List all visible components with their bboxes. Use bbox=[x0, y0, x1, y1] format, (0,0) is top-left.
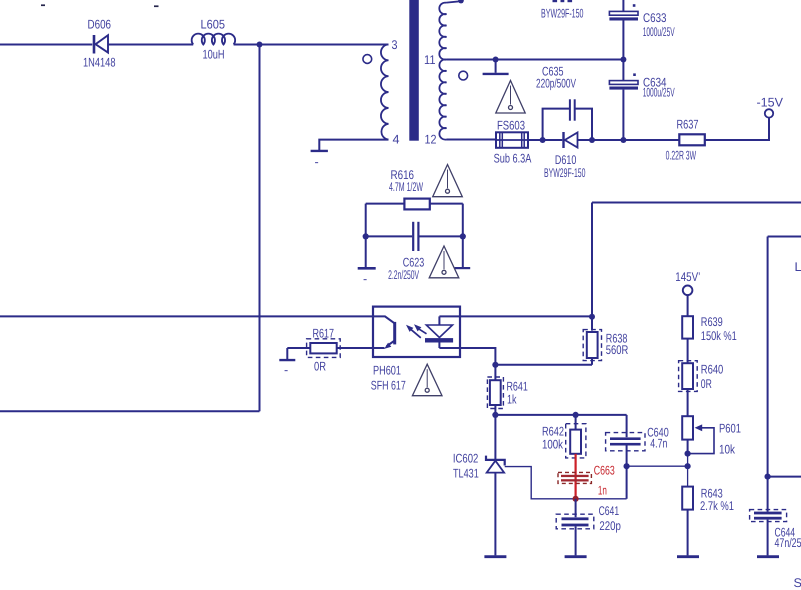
node at tap stub bbox=[493, 57, 499, 63]
resistor R640 dashed box bbox=[679, 361, 698, 392]
ground stub right of C623 bbox=[455, 267, 471, 269]
wire R641 bottom to TL431 bbox=[494, 405, 496, 460]
svg-text:2.7k %1: 2.7k %1 bbox=[700, 499, 734, 513]
wire: bottom return y=411 bbox=[0, 410, 260, 412]
capacitor C640 dashed box bbox=[606, 433, 645, 451]
wire R640 to P601 bbox=[687, 389, 689, 416]
svg-text:R641: R641 bbox=[507, 379, 528, 393]
svg-text:TL431: TL431 bbox=[453, 466, 479, 480]
wire R638 bottom rail to R641 node bbox=[495, 364, 592, 366]
node C634 bottom bbox=[620, 137, 626, 143]
capacitor C644 dashed box bbox=[750, 510, 787, 522]
wire R638 bottom bbox=[591, 358, 593, 365]
resistor R642 bbox=[570, 430, 581, 454]
svg-text:145V’: 145V’ bbox=[675, 270, 700, 284]
warning triangle above C623 bbox=[433, 165, 463, 197]
svg-text:0R: 0R bbox=[314, 359, 326, 373]
label D609 clipped bbox=[553, 0, 558, 2]
capacitor C641 plates bbox=[562, 517, 589, 520]
phase dot primary bbox=[363, 55, 372, 64]
resistor R616 bbox=[404, 199, 429, 210]
svg-text:-15V: -15V bbox=[757, 95, 784, 109]
svg-text:560R: 560R bbox=[606, 343, 629, 357]
ground TL431 bbox=[484, 555, 506, 558]
potentiometer P601 bbox=[682, 416, 693, 439]
node R642 top bbox=[573, 412, 579, 418]
svg-text:1000u/25V: 1000u/25V bbox=[643, 25, 675, 39]
svg-text:BYW29F-150: BYW29F-150 bbox=[544, 166, 586, 180]
node C623 right bbox=[460, 233, 466, 239]
svg-text:-: - bbox=[284, 363, 288, 377]
node fuse/D610/C635 left bbox=[540, 137, 546, 143]
resistor R639 bbox=[682, 316, 693, 338]
svg-text:SFH 617: SFH 617 bbox=[371, 378, 406, 392]
svg-text:P601: P601 bbox=[719, 422, 741, 436]
wire R643 to ground bbox=[687, 510, 689, 556]
resistor R638 bbox=[587, 332, 598, 358]
svg-text:C623: C623 bbox=[403, 255, 425, 269]
svg-text:PH601: PH601 bbox=[373, 363, 401, 377]
wire to transformer pin 3 bbox=[234, 44, 389, 46]
wire: feedback line y=316.5 to optocoupler bbox=[0, 315, 373, 317]
node pin11/C633 junction bbox=[620, 57, 626, 63]
capacitor C663 plates bbox=[561, 475, 589, 477]
capacitor C640 branch bbox=[626, 415, 628, 437]
svg-text:150k %1: 150k %1 bbox=[701, 329, 737, 343]
wire left vertical of R616 loop bbox=[365, 204, 367, 268]
node R641 bottom bbox=[492, 412, 498, 418]
svg-text:D610: D610 bbox=[555, 153, 576, 167]
terminal 145V bbox=[683, 286, 693, 296]
diode D606 bbox=[94, 35, 193, 54]
svg-text:100k: 100k bbox=[542, 438, 564, 452]
svg-text:L: L bbox=[795, 260, 801, 274]
wire R641 node to C640 branch bbox=[495, 414, 626, 416]
wire R642 top bbox=[575, 415, 577, 430]
node D610/C635 right bbox=[589, 137, 595, 143]
svg-text:1000u/25V: 1000u/25V bbox=[643, 85, 675, 99]
wire pin 4 to ground bbox=[319, 140, 388, 150]
resistor R638 dashed box bbox=[583, 330, 601, 361]
resistor R641 dashed box bbox=[487, 377, 503, 409]
svg-text:S: S bbox=[794, 576, 801, 590]
svg-text:IC602: IC602 bbox=[453, 451, 478, 465]
node R641 top bbox=[492, 362, 498, 368]
svg-text:4.7n: 4.7n bbox=[650, 436, 667, 450]
capacitor C663 (red) dashed box bbox=[558, 472, 591, 483]
svg-text:-: - bbox=[363, 272, 367, 286]
capacitor C644 plates bbox=[754, 512, 782, 515]
node C623 left bbox=[363, 233, 369, 239]
wire: 145V box top rail bbox=[592, 202, 801, 204]
resistor R641 bbox=[490, 380, 501, 405]
capacitor C635 parallel branch bbox=[543, 99, 592, 140]
resistor R617 bbox=[310, 343, 336, 353]
wire opto top-right to R638 node bbox=[460, 315, 592, 317]
wire: vertical from rail to R638 bbox=[591, 203, 593, 331]
wire C644 to ground bbox=[767, 520, 769, 556]
wire: C644 vertical bbox=[767, 237, 769, 512]
wire R639 to R640 bbox=[687, 339, 689, 364]
wire P601 to R643 bbox=[687, 440, 689, 454]
svg-text:47n/25: 47n/25 bbox=[775, 536, 801, 550]
resistor R642 dashed box bbox=[566, 424, 586, 458]
wire R617 to opto bbox=[337, 347, 373, 349]
svg-text:4: 4 bbox=[393, 132, 400, 146]
wire C644 node to right edge bbox=[768, 476, 801, 478]
wire: pin 11 rail y=59.5 bbox=[447, 59, 624, 61]
wire ground to R617 bbox=[287, 347, 310, 349]
wire C640 node to divider bbox=[627, 465, 688, 467]
svg-text:10k: 10k bbox=[719, 442, 736, 456]
svg-text:R642: R642 bbox=[542, 424, 564, 438]
node junction at L605 output bbox=[257, 42, 263, 48]
capacitor C633 bbox=[609, 0, 638, 60]
svg-text:C641: C641 bbox=[599, 504, 620, 518]
svg-text:1N4148: 1N4148 bbox=[83, 55, 116, 69]
node C640 bottom bbox=[624, 463, 630, 469]
fuse FS603 bbox=[496, 132, 528, 148]
svg-text:R639: R639 bbox=[701, 315, 723, 329]
ground C644 bbox=[757, 555, 779, 558]
svg-text:C663: C663 bbox=[594, 463, 615, 477]
svg-text:FS603: FS603 bbox=[497, 118, 525, 132]
opto photon arrows bbox=[406, 324, 427, 338]
wire R637 to -15V terminal bbox=[705, 118, 769, 140]
ground for R617 bbox=[286, 348, 288, 359]
diode D610 bbox=[564, 132, 578, 148]
capacitor C641 bbox=[575, 499, 577, 517]
node divider/C640 link bbox=[685, 463, 691, 469]
svg-text:R617: R617 bbox=[313, 327, 335, 341]
capacitor C623 bbox=[366, 222, 463, 251]
wire opto bottom-right to R641 bbox=[460, 348, 495, 380]
svg-text:-: - bbox=[315, 155, 319, 169]
svg-text:D606: D606 bbox=[88, 18, 112, 32]
svg-text:C633: C633 bbox=[643, 11, 667, 25]
inductor L605 bbox=[192, 34, 236, 45]
svg-text:R640: R640 bbox=[701, 362, 724, 376]
svg-text:0.22R 3W: 0.22R 3W bbox=[666, 149, 697, 163]
svg-text:0R: 0R bbox=[701, 377, 712, 391]
wire 145V to R639 bbox=[687, 296, 689, 317]
capacitor C641 dashed box bbox=[556, 514, 594, 529]
optocoupler PH601 box bbox=[373, 307, 460, 357]
red wire R642 to C663 node bbox=[574, 454, 576, 499]
svg-text:R637: R637 bbox=[677, 118, 699, 132]
P601 wiper arrow bbox=[688, 424, 714, 453]
warning triangle near FS603 bbox=[496, 81, 525, 114]
warning triangle below C623 bbox=[429, 246, 459, 278]
resistor R616 loop bbox=[366, 203, 405, 205]
opto LED bbox=[425, 316, 460, 348]
wire fuse to D610 bbox=[528, 139, 562, 141]
node R638 top bbox=[589, 314, 595, 320]
wire right vertical of R616 loop bbox=[462, 204, 464, 268]
opto phototransistor bbox=[373, 316, 395, 349]
svg-text:L605: L605 bbox=[201, 17, 226, 31]
node P601 bottom bbox=[685, 451, 691, 457]
transformer T601 core bbox=[409, 0, 419, 141]
resistor R617 dashed box bbox=[307, 339, 341, 358]
svg-text:Sub 6.3A: Sub 6.3A bbox=[494, 151, 532, 165]
node C644 tap bbox=[765, 474, 771, 480]
svg-text:1n: 1n bbox=[598, 484, 607, 498]
resistor R640 bbox=[682, 363, 693, 389]
svg-text:220p/500V: 220p/500V bbox=[536, 77, 576, 91]
shunt regulator IC602 TL431 bbox=[486, 456, 505, 556]
warning triangle below opto bbox=[412, 364, 442, 396]
svg-text:4.7M 1/2W: 4.7M 1/2W bbox=[389, 180, 423, 194]
wire stub to D609 (cut at top) bbox=[447, 1, 462, 2]
wire: long vertical from junction bbox=[259, 45, 261, 412]
transformer primary winding pins 3-4 bbox=[381, 44, 389, 139]
svg-text:10uH: 10uH bbox=[203, 47, 225, 61]
capacitor C640 plates bbox=[610, 437, 641, 440]
resistor R637 bbox=[679, 134, 705, 145]
wire: pin 12 rail to fuse bbox=[447, 139, 497, 141]
ground C641 bbox=[565, 555, 587, 558]
ground left of C623 bbox=[358, 267, 376, 270]
svg-text:12: 12 bbox=[425, 132, 437, 146]
wire TL431 ref loop bbox=[505, 467, 627, 499]
wire: top-left input net y=44.5 bbox=[0, 44, 92, 46]
svg-text:2.2n/250V: 2.2n/250V bbox=[388, 268, 419, 282]
transformer secondary winding pins 11-12 bbox=[439, 3, 446, 140]
svg-text:1k: 1k bbox=[507, 393, 517, 407]
wire: C644 branch top rail bbox=[768, 236, 801, 238]
svg-text:220p: 220p bbox=[599, 519, 621, 533]
svg-text:11: 11 bbox=[424, 53, 436, 67]
tap stub bar bbox=[495, 60, 497, 73]
capacitor C634 bbox=[609, 60, 638, 141]
svg-text:BYW29F-150: BYW29F-150 bbox=[541, 7, 584, 21]
svg-text:3: 3 bbox=[392, 38, 398, 52]
node C663 (red) bbox=[573, 496, 579, 502]
phase dot secondary bbox=[459, 71, 468, 80]
wire D610 to R637 bbox=[578, 139, 680, 141]
clipped text fragments at top edge bbox=[41, 4, 45, 6]
ground R643 bbox=[677, 555, 699, 558]
terminal -15V bbox=[765, 109, 773, 117]
ground at pin 4 bbox=[311, 150, 328, 152]
resistor R643 bbox=[682, 487, 693, 510]
